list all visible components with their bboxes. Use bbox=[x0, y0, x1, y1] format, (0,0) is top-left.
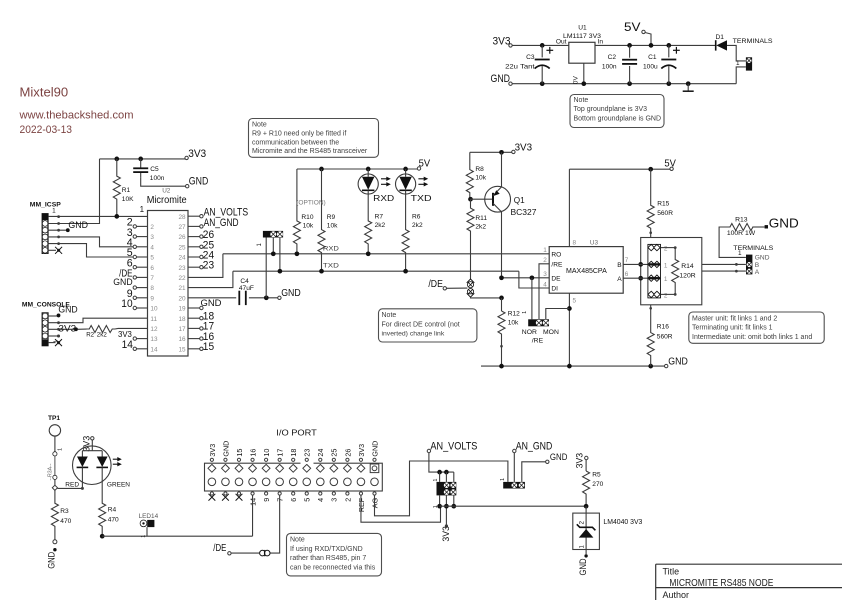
svg-text:Note: Note bbox=[290, 537, 305, 544]
wire REF bus to R5 bbox=[440, 505, 586, 507]
node GND (C4) bbox=[264, 295, 269, 300]
note box master unit links bbox=[689, 312, 824, 343]
node 3V3 (AN_VOLTS divider) bbox=[445, 524, 448, 527]
LED RXD indicator bbox=[366, 167, 371, 172]
node GND (AN_GND) bbox=[546, 460, 549, 463]
node GND (TP1) bbox=[54, 527, 56, 541]
svg-text:GND: GND bbox=[221, 441, 230, 457]
svg-text:I/O PORT: I/O PORT bbox=[276, 428, 317, 437]
capacitor C2 100n bbox=[627, 43, 632, 48]
svg-text:120R: 120R bbox=[679, 273, 695, 280]
svg-text:RXD: RXD bbox=[373, 194, 394, 203]
svg-text:23: 23 bbox=[203, 260, 214, 272]
wire 3V3 rail to U1 Out bbox=[512, 44, 569, 46]
node 3V3 (Q1) bbox=[512, 150, 515, 153]
svg-text:15: 15 bbox=[235, 449, 244, 457]
svg-text:47uF: 47uF bbox=[239, 285, 254, 292]
svg-text:GND: GND bbox=[189, 175, 209, 187]
svg-text:2k2: 2k2 bbox=[97, 331, 108, 338]
svg-text:3V3: 3V3 bbox=[188, 148, 206, 160]
node 5V (LED rail) bbox=[417, 167, 420, 170]
wire AN_GND to header bbox=[513, 453, 515, 482]
svg-text:www.thebackshed.com: www.thebackshed.com bbox=[18, 109, 133, 121]
svg-text:5V: 5V bbox=[664, 158, 676, 169]
connector termination links header bbox=[648, 244, 661, 298]
svg-text:18: 18 bbox=[289, 449, 298, 457]
svg-text:3V3: 3V3 bbox=[493, 36, 511, 48]
ICSP pin3 GND stub bbox=[48, 229, 66, 231]
wire option header pin2 to RXD bbox=[272, 238, 274, 254]
svg-text:NOR: NOR bbox=[522, 329, 537, 336]
svg-text:Mixtel90: Mixtel90 bbox=[20, 86, 69, 100]
wire U1 In to rail bbox=[595, 44, 716, 46]
capacitor C5 100n bbox=[138, 157, 143, 162]
svg-text:560R: 560R bbox=[657, 210, 673, 217]
svg-text:10: 10 bbox=[150, 306, 158, 313]
svg-text:7: 7 bbox=[625, 257, 629, 264]
node GND (supply bottom rail left) bbox=[509, 82, 512, 85]
node 5V (U3 rail) bbox=[670, 167, 673, 170]
console pin1 GND stub bbox=[48, 315, 57, 317]
wire links to terminal A bbox=[702, 270, 746, 272]
MM_ICSP stub dots bbox=[57, 215, 60, 218]
wire R13 to GND bbox=[752, 226, 764, 228]
svg-text:R11: R11 bbox=[475, 215, 487, 222]
svg-text:Micromite and the RS485 transc: Micromite and the RS485 transceiver bbox=[252, 148, 368, 155]
svg-text:10k: 10k bbox=[327, 223, 338, 230]
wire U3 A to links bbox=[623, 277, 648, 279]
svg-text:LM1117 3V3: LM1117 3V3 bbox=[563, 33, 601, 40]
wire U3 pin5 to GND rail bbox=[568, 293, 570, 366]
svg-text:(OPTION): (OPTION) bbox=[296, 200, 326, 207]
svg-text:GND: GND bbox=[769, 216, 799, 230]
svg-text:Title: Title bbox=[663, 567, 680, 577]
resistor R7 2k2 bbox=[367, 194, 369, 211]
svg-text:/RE: /RE bbox=[532, 337, 544, 344]
svg-text:Master unit: fit links 1 and 2: Master unit: fit links 1 and 2 bbox=[692, 315, 777, 322]
U2 right pin stubs with circles bbox=[188, 215, 200, 217]
node GND (RS485 rail) bbox=[665, 364, 668, 367]
svg-text:R13: R13 bbox=[735, 217, 748, 224]
svg-text:2: 2 bbox=[343, 498, 352, 502]
svg-text:2: 2 bbox=[664, 246, 668, 253]
svg-text:2022-03-13: 2022-03-13 bbox=[20, 124, 73, 136]
svg-text:100R 1W: 100R 1W bbox=[727, 230, 756, 237]
svg-text:Intermediate unit: omit both l: Intermediate unit: omit both links 1 and bbox=[692, 334, 812, 341]
resistor R4 470 bbox=[99, 503, 106, 527]
wire U3 B to links bbox=[623, 263, 648, 265]
node GND (LM4040) bbox=[584, 554, 587, 557]
console pin5 no-connect bbox=[48, 342, 55, 344]
svg-text:6: 6 bbox=[150, 265, 154, 272]
svg-text:1: 1 bbox=[543, 247, 547, 254]
svg-text:R9: R9 bbox=[327, 214, 336, 221]
svg-text:17: 17 bbox=[178, 326, 186, 333]
svg-text:1: 1 bbox=[52, 207, 56, 214]
svg-text:Out: Out bbox=[556, 39, 567, 46]
svg-text:GREEN: GREEN bbox=[107, 481, 130, 488]
svg-text:7: 7 bbox=[150, 275, 154, 282]
svg-text:1: 1 bbox=[141, 535, 147, 538]
resistor R3 470 bbox=[54, 490, 56, 503]
resistor R12 10k bbox=[499, 296, 504, 301]
svg-text:0V: 0V bbox=[573, 76, 580, 85]
svg-text:MICROMITE RS485 NODE: MICROMITE RS485 NODE bbox=[669, 578, 773, 589]
wire link loop bbox=[641, 238, 702, 305]
wire R2 to U2 pin12 bbox=[118, 327, 148, 329]
svg-text:100n: 100n bbox=[150, 175, 165, 182]
wire GND rail (RS485) bbox=[481, 365, 665, 367]
node 3V3 (regulator output) bbox=[509, 44, 512, 47]
svg-text:27: 27 bbox=[178, 224, 186, 231]
svg-text:10K: 10K bbox=[122, 196, 134, 203]
svg-text:3: 3 bbox=[150, 234, 154, 241]
svg-text:2: 2 bbox=[150, 224, 154, 231]
svg-text:can be reconnected via this: can be reconnected via this bbox=[290, 565, 376, 572]
svg-text:3V3: 3V3 bbox=[515, 143, 533, 154]
op-amp U1 LM1117 regulator body bbox=[569, 42, 595, 63]
jumper R3A bbox=[53, 452, 57, 456]
diode LM4040 shunt reference bbox=[584, 504, 589, 509]
resistor R11 2k2 bbox=[467, 199, 474, 240]
svg-text:1: 1 bbox=[57, 448, 63, 451]
wire /DE to link bbox=[447, 287, 468, 289]
wire ICSP pin2 to 3V3 rail bbox=[48, 159, 99, 224]
svg-text:18: 18 bbox=[178, 316, 186, 323]
svg-text:GND: GND bbox=[68, 220, 88, 230]
resistor R6 2k2 bbox=[405, 194, 407, 211]
connector serial option header bbox=[263, 231, 283, 238]
svg-text:A: A bbox=[617, 276, 622, 283]
note box R9 R10 fitting bbox=[249, 119, 379, 158]
svg-text:26: 26 bbox=[178, 234, 186, 241]
wire U3 pin8 to 5V bbox=[568, 169, 570, 246]
wire 5V rail (LED section) bbox=[297, 168, 417, 170]
wire /DE node to U3 DE bbox=[502, 277, 550, 279]
wire TXD bbox=[233, 270, 519, 272]
resistor R15 560R bbox=[648, 167, 653, 172]
svg-text:15: 15 bbox=[203, 341, 214, 353]
svg-text:GND: GND bbox=[46, 552, 56, 569]
svg-text:Top groundplane is 3V3: Top groundplane is 3V3 bbox=[574, 106, 648, 113]
svg-text:24: 24 bbox=[316, 449, 325, 457]
svg-text:2: 2 bbox=[664, 292, 668, 299]
node 3V3 (U2 top) bbox=[185, 156, 188, 159]
svg-text:DE: DE bbox=[551, 276, 561, 283]
connector AN_VOLTS header bbox=[439, 472, 441, 482]
svg-text:560R: 560R bbox=[657, 334, 673, 341]
svg-text:3V3: 3V3 bbox=[441, 526, 451, 542]
wire D1 to terminals bbox=[727, 45, 746, 61]
svg-text:9: 9 bbox=[150, 295, 154, 302]
svg-text:23: 23 bbox=[178, 265, 186, 272]
MM_CONSOLE stub dots bbox=[57, 315, 60, 318]
svg-text:10: 10 bbox=[262, 449, 271, 457]
svg-text:GND: GND bbox=[281, 287, 301, 299]
svg-text:GND: GND bbox=[755, 255, 770, 262]
svg-text:LM4040 3V3: LM4040 3V3 bbox=[603, 519, 642, 526]
transistor Q1 BC327 bbox=[468, 197, 473, 202]
node GND (C5) bbox=[186, 185, 189, 188]
svg-text:19: 19 bbox=[178, 306, 186, 313]
svg-text:1: 1 bbox=[736, 60, 740, 67]
resistor R13 100R 1W bbox=[719, 227, 746, 257]
console pin3 3V3 stub bbox=[48, 328, 74, 330]
svg-text:GND: GND bbox=[201, 297, 222, 308]
svg-text:22u Tant: 22u Tant bbox=[505, 64, 535, 71]
svg-text:--R3A--: --R3A-- bbox=[47, 463, 53, 480]
svg-text:1: 1 bbox=[433, 478, 439, 481]
svg-text:5V: 5V bbox=[624, 22, 641, 34]
svg-text:6: 6 bbox=[127, 257, 133, 269]
resistor R9 10k bbox=[319, 167, 324, 172]
svg-text:26: 26 bbox=[343, 449, 352, 457]
svg-text:R1: R1 bbox=[122, 187, 131, 194]
wire GND to AN_GND header bbox=[522, 462, 546, 482]
svg-text:3: 3 bbox=[543, 271, 547, 278]
svg-text:R14: R14 bbox=[681, 263, 694, 270]
svg-text:R15: R15 bbox=[657, 200, 669, 207]
resistor R2 2k2 bbox=[78, 328, 87, 330]
note box groundplane bbox=[570, 95, 664, 128]
node 5V input bbox=[642, 30, 645, 33]
svg-text:Author: Author bbox=[663, 590, 690, 600]
svg-text:GND: GND bbox=[113, 277, 133, 287]
wires AN_VOLTS header to REF bus bbox=[439, 495, 441, 506]
wire ICSP pin1 to U2 pin1 bbox=[48, 215, 147, 217]
svg-text:3V3: 3V3 bbox=[58, 324, 76, 334]
svg-text:inverted) change link: inverted) change link bbox=[382, 331, 445, 338]
svg-text:R8: R8 bbox=[475, 166, 484, 173]
svg-text:23: 23 bbox=[303, 449, 312, 457]
wire 5V pin down to rail bbox=[645, 33, 651, 46]
svg-text:17: 17 bbox=[276, 449, 285, 457]
LED TXD indicator bbox=[403, 167, 408, 172]
svg-text:14: 14 bbox=[122, 339, 133, 351]
svg-text:U2: U2 bbox=[162, 188, 171, 195]
svg-text:11: 11 bbox=[150, 316, 157, 323]
svg-text:Bottom groundplane is GND: Bottom groundplane is GND bbox=[574, 116, 662, 123]
wire R11 to DE-select link bbox=[470, 240, 472, 281]
svg-text:3: 3 bbox=[330, 498, 339, 502]
wire ICSP pin5 to U2 pin5 bbox=[48, 244, 133, 257]
svg-text:communication between the: communication between the bbox=[252, 139, 339, 146]
svg-text:R12: R12 bbox=[508, 310, 520, 317]
wire GND bottom rail bbox=[512, 83, 736, 85]
svg-text:14: 14 bbox=[150, 346, 158, 353]
svg-text:1: 1 bbox=[500, 478, 506, 481]
svg-text:AN_VOLTS: AN_VOLTS bbox=[430, 440, 477, 452]
svg-text:R7: R7 bbox=[375, 213, 384, 220]
svg-text:Note: Note bbox=[382, 312, 397, 319]
svg-text:21: 21 bbox=[178, 285, 186, 292]
svg-text:2k2: 2k2 bbox=[412, 222, 423, 229]
svg-text:1: 1 bbox=[140, 205, 145, 214]
svg-text:TXD: TXD bbox=[323, 262, 339, 269]
I/O PORT bottom labels bbox=[209, 494, 216, 501]
resistor R10 10k bbox=[296, 169, 298, 211]
svg-text:TP1: TP1 bbox=[48, 415, 60, 422]
svg-text:470: 470 bbox=[60, 518, 71, 525]
note box pin7 reconnect bbox=[287, 533, 382, 576]
svg-text:13: 13 bbox=[150, 336, 158, 343]
svg-text:R2: R2 bbox=[86, 331, 94, 338]
svg-text:DI: DI bbox=[551, 286, 558, 293]
wire IO pin14 down to LED14 net bbox=[252, 495, 254, 536]
svg-text:15: 15 bbox=[178, 346, 186, 353]
svg-text:24: 24 bbox=[178, 255, 186, 262]
svg-text:GND: GND bbox=[370, 441, 379, 457]
svg-text:5: 5 bbox=[573, 297, 577, 304]
svg-text:/DE: /DE bbox=[213, 543, 226, 554]
svg-text:In: In bbox=[598, 39, 604, 46]
wire console pin2 to U2 pin11 bbox=[48, 318, 147, 323]
svg-text:470: 470 bbox=[108, 516, 119, 523]
svg-text:16: 16 bbox=[178, 336, 186, 343]
capacitor C4 47uF bbox=[188, 297, 236, 299]
jumper DE-select link bbox=[467, 279, 474, 282]
svg-text:B: B bbox=[617, 262, 622, 269]
wire IO AG to AN_GND header bbox=[375, 461, 508, 516]
resistor R1 10K bbox=[114, 157, 119, 162]
resistor R16 560R bbox=[650, 305, 652, 322]
console pin4 stub bbox=[48, 335, 57, 337]
svg-text:6: 6 bbox=[625, 271, 629, 278]
svg-text:1: 1 bbox=[664, 262, 668, 269]
svg-text:U3: U3 bbox=[590, 240, 599, 247]
wire DE node down to NOR/MON link bbox=[531, 278, 533, 320]
capacitor C1 100u bbox=[666, 43, 671, 48]
svg-text:3V3: 3V3 bbox=[118, 330, 132, 339]
svg-text:C1: C1 bbox=[648, 54, 657, 61]
svg-text:100u: 100u bbox=[643, 64, 658, 71]
svg-text:4: 4 bbox=[150, 244, 154, 251]
svg-text:R6: R6 bbox=[412, 213, 421, 220]
svg-text:28: 28 bbox=[178, 214, 186, 221]
wire NOR/MON pin3 to GND bbox=[546, 309, 570, 320]
svg-text:RED: RED bbox=[65, 481, 79, 488]
IC U3 MAX485CPA body bbox=[549, 247, 623, 294]
svg-text:3V3: 3V3 bbox=[82, 436, 92, 452]
node AN_GND bbox=[513, 449, 516, 452]
wire red cathode to R3 node bbox=[58, 467, 83, 488]
svg-text:12: 12 bbox=[150, 326, 158, 333]
svg-text:MON: MON bbox=[543, 329, 559, 336]
svg-text:10k: 10k bbox=[508, 320, 519, 327]
ground symbol (supply) bbox=[686, 81, 691, 86]
svg-text:GND: GND bbox=[668, 356, 688, 368]
title block frame bbox=[656, 563, 842, 565]
svg-text:R4: R4 bbox=[108, 506, 117, 513]
svg-text:Micromite: Micromite bbox=[147, 195, 188, 206]
svg-text:5V: 5V bbox=[419, 158, 431, 169]
svg-text:1: 1 bbox=[664, 276, 668, 283]
svg-text:4: 4 bbox=[543, 281, 547, 288]
node 3V3 (R5) bbox=[585, 456, 588, 459]
svg-text:BC327: BC327 bbox=[511, 208, 538, 217]
svg-text:10k: 10k bbox=[303, 223, 314, 230]
svg-text:2k2: 2k2 bbox=[475, 224, 486, 231]
wire TXD to U3 DI bbox=[519, 271, 549, 288]
svg-text:TERMINALS: TERMINALS bbox=[733, 38, 773, 45]
svg-text:U1: U1 bbox=[578, 25, 587, 32]
svg-text:R5: R5 bbox=[592, 472, 601, 479]
U2 left pin stubs with circles bbox=[137, 225, 148, 227]
svg-text:A: A bbox=[755, 269, 760, 276]
svg-text:Q1: Q1 bbox=[514, 196, 525, 205]
wire green cathode to R4 bbox=[101, 467, 103, 503]
resistor R14 120R bbox=[661, 247, 676, 249]
svg-text:C2: C2 bbox=[608, 54, 617, 61]
svg-text:If using RXD/TXD/GND: If using RXD/TXD/GND bbox=[290, 546, 363, 553]
U1 0V pin wire bbox=[583, 63, 585, 83]
diode D1 bbox=[715, 40, 717, 50]
svg-text:1: 1 bbox=[738, 250, 742, 257]
svg-text:AN_GND: AN_GND bbox=[516, 440, 553, 452]
svg-text:100n: 100n bbox=[602, 64, 617, 71]
resistor R8 10k bbox=[469, 152, 471, 163]
svg-text:D1: D1 bbox=[716, 34, 725, 41]
ICSP pin6 no-connect bbox=[48, 249, 56, 251]
wire 3V3 rail (Q1) bbox=[470, 151, 512, 153]
svg-text:TXD: TXD bbox=[411, 194, 432, 203]
svg-text:1: 1 bbox=[522, 311, 528, 314]
svg-text:C5: C5 bbox=[150, 166, 159, 173]
svg-text:GND: GND bbox=[58, 304, 78, 314]
note box direct DE control bbox=[379, 309, 477, 342]
svg-text:RO: RO bbox=[551, 251, 561, 258]
svg-text:8: 8 bbox=[573, 240, 577, 247]
svg-text:C3: C3 bbox=[526, 54, 535, 61]
svg-text:25: 25 bbox=[178, 244, 186, 251]
wire link bottom to R12 node bbox=[471, 297, 502, 298]
wire 5V rail (U3) bbox=[569, 168, 670, 170]
wire AN_VOLTS to header bbox=[429, 453, 454, 472]
svg-text:AN_GND: AN_GND bbox=[204, 217, 239, 229]
svg-text:25: 25 bbox=[330, 449, 339, 457]
wire U3 /RE to NOR/MON link bbox=[539, 264, 549, 320]
svg-text:R9 + R10 need only be fitted i: R9 + R10 need only be fitted if bbox=[252, 131, 346, 138]
svg-text:/RE: /RE bbox=[551, 262, 563, 269]
wire option header pin1 to GND bbox=[265, 238, 267, 298]
svg-text:16: 16 bbox=[248, 449, 257, 457]
wire U2 pin21 to TXD net bbox=[188, 271, 233, 287]
wire Q1 collector to /DE node bbox=[501, 212, 503, 278]
svg-text:9: 9 bbox=[262, 498, 271, 502]
svg-text:MM_ICSP: MM_ICSP bbox=[30, 202, 62, 209]
wire 3V3 rail above U2 bbox=[100, 158, 186, 160]
svg-text:GND: GND bbox=[578, 558, 588, 575]
wire ICSP pin4 to U2 pin4 bbox=[48, 237, 133, 247]
svg-text:Note: Note bbox=[252, 122, 267, 129]
svg-text:MAX485CPA: MAX485CPA bbox=[566, 266, 607, 275]
svg-text:3V3: 3V3 bbox=[357, 444, 366, 457]
svg-text:Terminating unit: fit links 1: Terminating unit: fit links 1 bbox=[692, 325, 773, 332]
svg-text:rather than RS485, pin 7: rather than RS485, pin 7 bbox=[290, 555, 366, 562]
svg-text:6: 6 bbox=[289, 498, 298, 502]
wire IO pin7 via link to /DE bbox=[270, 495, 280, 553]
svg-text:C4: C4 bbox=[240, 278, 249, 285]
svg-text:5: 5 bbox=[150, 255, 154, 262]
svg-text:R3: R3 bbox=[60, 508, 69, 515]
svg-text:GND: GND bbox=[491, 73, 511, 85]
wire RXD bbox=[223, 253, 549, 255]
wire option header pin3 to TXD bbox=[279, 238, 281, 272]
svg-text:Note: Note bbox=[574, 97, 589, 104]
svg-text:10: 10 bbox=[121, 298, 132, 310]
resistor R5 270 bbox=[585, 460, 587, 471]
jumper pin7 reconnect link bbox=[260, 550, 270, 556]
